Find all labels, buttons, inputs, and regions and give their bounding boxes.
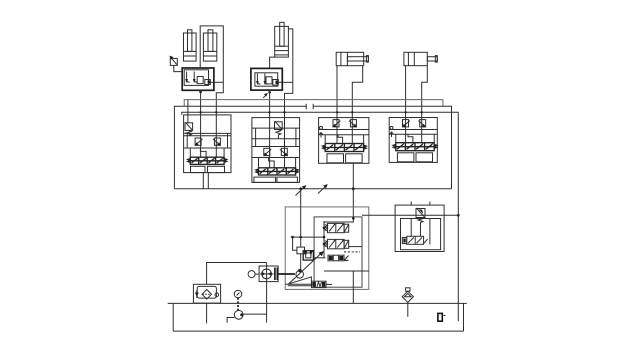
pilot line PB1 center [200,90,202,157]
section S4 check valve b [418,120,425,128]
section S2 relief stem [277,135,279,139]
gear pump GP cross [260,273,274,275]
junction dot SV2 [323,243,326,246]
filter bypass check valve [195,290,199,298]
cylinder CY3 body [275,26,289,57]
pilot pump suction stub [227,318,234,323]
gear pump GP frame [259,266,278,282]
pipe block top gallery to right block [362,214,458,216]
pipe PB2 right port to riser [278,81,292,83]
pilot relief valve PR1 body [170,58,177,65]
oil level gauge [438,313,442,321]
pipe CY4 cap end down to manifold [336,66,338,144]
supply gallery line C [182,112,459,115]
section S2 relief valve body [275,122,283,130]
pipe drain gauge to gear pump [255,273,259,275]
flow arrow on line D left [296,185,307,195]
pipe gear pump suction into tank [266,263,268,323]
pilot reducing valve PB1-b arrowhead [193,79,196,83]
pipe CY5 rod end down to manifold [422,66,428,143]
valve section S3 frame [319,118,369,164]
relief block channel a [410,219,412,237]
junction dot servo gallery left [291,236,294,239]
pilot pump PP circle [234,310,243,319]
section S1 inner side channels [187,133,227,148]
pipe filter to gear pump [207,263,267,285]
tank return line from gallery C [457,112,459,321]
drain line inside block [324,270,369,272]
section S2 foot chamber a [254,177,276,182]
air breather cap [406,288,410,291]
section S1 side channels [190,148,224,157]
main supply/return line D (manifold bottom) [174,188,451,190]
section S3 spool bridge channel [338,135,343,144]
section S1 spool bridge channel [200,148,206,157]
section S1 check gallery lines [184,136,231,148]
pipe filter leg into tank [206,303,208,323]
manifold top break tick right [312,104,314,110]
section S4 check gallery line [389,129,437,131]
gear pump GP circle [262,269,272,279]
servo valve box B inner [306,253,311,258]
cylinder CY4 rod end cap [366,56,368,63]
junction dot SV1 [323,227,326,230]
compensator valve CV [312,281,333,287]
junction dot PB2 bottom [268,91,271,94]
section S4 gallery line mid [389,133,437,135]
pressure gauge G1 [234,290,242,298]
high pressure relief block frame [395,205,444,251]
pilot pump PP outlet dot [240,313,243,316]
junction dots on gallery C [200,111,423,113]
section S2 foot chamber b [277,177,298,182]
air breather stem into tank [407,302,409,317]
riser feeding solenoid valves [323,221,325,258]
cylinder CY5 body [404,52,427,65]
section S2 relief valve spring [276,130,281,135]
swash servo arrow (variable pump) [289,251,324,284]
cylinder CY5 rod [427,57,437,61]
section S2 spool bridge channel [269,158,275,168]
pilot supply line A across top of manifold [184,100,443,107]
pilot valve block PB1 inner envelope [184,70,208,86]
junction dot on line D at pump pipe [299,187,302,190]
pipe pilot pump discharge [243,313,267,315]
tank bottom [173,330,463,332]
main pump MP outlet dot [298,269,301,272]
regulator inner frame [314,217,362,287]
section S2 check valve a [263,148,271,156]
tank right wall [463,303,465,331]
section S4 anti-cavitation check [390,126,393,129]
pilot reducing valve PB1-a arrowhead [185,79,188,83]
main relief valve RV body [416,209,425,218]
pilot valve PB1 end box plug [208,81,211,84]
pilot reducing valve PB1-b [194,72,197,83]
section S4 foot chamber a [397,153,414,162]
pilot reducing valve PB2-b arrowhead [264,81,267,85]
riser to section S1 relief [187,100,189,123]
section S4 spool bridge channel [408,134,413,143]
pipe to servo head [293,237,297,250]
pipe CY3 rod port down to PB2 [270,57,275,68]
section S4 check valve a [402,120,410,128]
pilot valve PB2 spool box [266,77,272,84]
section S2 gallery line upper [252,127,300,129]
pipe CY4 rod end down to manifold [352,66,362,144]
relief block inner envelope [401,219,441,250]
pilot dash line under SV2 [344,251,360,253]
section S1 foot chamber b [208,166,225,172]
unload spool valve UV [402,236,427,244]
pipe regulator to line D [352,189,354,219]
section S4 main spool band [393,143,436,151]
pipe solenoid feed from regulator top [324,218,353,222]
servo valve box B [303,251,313,260]
pipe section S3 tank leg [352,163,354,189]
valve section S4 frame [389,118,437,163]
pilot valve PB1 spool box [197,77,203,84]
drain arrow under PB2 [263,94,266,98]
pilot reducing valve PB2-a [257,74,260,85]
valve section S1 frame [184,115,231,173]
cylinder CY3 rod [280,22,284,46]
hydraulic tank outline [168,302,467,304]
manifold top break tick left [305,104,307,110]
coupling bars [275,268,278,281]
return filter block frame [193,284,220,303]
section S3 check valve b [349,120,357,128]
valve section S2 frame [252,118,300,183]
relief block port stub b [429,202,431,206]
pilot relief valve PR1 arrowhead [169,56,173,60]
pipe CY3 head port to riser [285,29,293,168]
pipe section S1 tank leg [202,173,204,189]
junction dot regulator top [352,217,355,220]
cylinder CY5 rod end cap [435,56,437,63]
drive shaft [278,273,295,275]
section S2 check valve b [280,148,288,156]
solenoid valve SV1 [325,223,349,232]
cylinder CY4 body [336,52,364,65]
air breather filter diamond [402,291,413,302]
junction dot servo gallery mid [299,236,302,239]
section S3 check gallery line [319,129,369,131]
junction dot PB1 bottom [199,91,202,94]
cylinder CY2 body [203,33,216,61]
filter bypass ball [215,293,219,297]
pilot reducing valve PB2-a arrowhead [256,81,259,85]
pilot relief valve PR1 arrow [171,57,177,64]
pipe SV2 to inner frame [349,246,362,248]
main pump MP circle [296,271,304,279]
section S2 relief valve arrow [275,121,282,129]
pilot reducing valve PB1-a [187,72,190,83]
flow arrow on line D right [318,184,328,193]
section S1 foot chamber a [191,166,206,172]
section S3 side channels [325,135,363,144]
section S2 side channels [259,158,296,168]
section S3 anti-cavitation check [320,126,323,129]
shuttle row under solenoid valves [328,255,349,261]
pipe servo to pump [300,254,302,271]
section S3 main spool band [323,144,366,152]
oil level gauge tick [444,315,446,317]
return filter element (diamond) [202,290,212,300]
pipe PV feed [300,189,302,247]
relief block port stub a [410,202,412,206]
section S2 main spool band [256,168,298,175]
tank left wall [172,303,174,331]
section S4 foot chamber b [416,153,433,162]
section S1 relief valve body [185,123,193,131]
section S3 gallery line mid [319,134,369,136]
return filter inner envelope [197,286,216,298]
pipe PB1 right port to riser [210,81,223,83]
servo feed gallery [291,236,324,238]
pilot valve block PB2 inner envelope [255,73,278,86]
pilot valve block PB2 frame [251,68,282,90]
section S2 gallery line lower [252,138,300,140]
gauge damper line [237,298,239,311]
pump case bottom line [285,283,288,285]
pipe RV to spool [420,223,422,237]
section S4 side channels [396,134,434,143]
cylinder CY1 body [184,33,197,61]
section S3 foot chamber b [346,154,363,163]
section S1 main spool band [188,157,227,164]
section S2 check gallery lines [252,147,300,158]
cylinder CY2 rod [208,30,213,52]
pipe PR1 to PB1 [174,65,182,71]
section S1 check valve a [195,138,203,146]
section S1 gallery line [184,132,231,134]
pilot valve PB2 end box [273,80,279,86]
section S3 foot chamber a [327,154,344,163]
relief block channel b [429,219,431,245]
section S1 relief valve arrow [185,122,192,130]
air breather internal [404,294,411,297]
pipe block drain to tank [352,271,354,303]
pilot valve PB2 end box plug [276,81,279,85]
drain arrowhead under PB2 [264,93,268,97]
main control valve manifold frame [174,106,451,189]
drain gauge circle [248,271,255,278]
section S2 inner side channels [256,128,296,146]
solenoid valve SV2 [325,239,349,248]
main relief valve RV spring [418,218,423,223]
pipe from cylinders CY1/CY2 header down to pilot block PB1 [200,26,223,157]
pilot line PB2 center [269,90,271,168]
pilot valve block PB1 frame [182,68,214,90]
junction dot on line D at S3 leg [352,187,355,190]
pilot reducing valve PB2-b [265,74,268,85]
main relief valve RV arrow [416,208,424,217]
return filter flow dashes [203,293,212,295]
pilot valve PB1 end box [205,80,211,85]
pump group frame (sub-plate) [285,207,369,290]
cylinder CY1 rod [188,30,192,52]
section S1 check valve b [213,138,221,146]
cylinder CY4 rod [347,57,368,61]
section S3 check valve a [333,120,341,128]
servo valve B curls [304,250,313,255]
pipe CY5 cap end down to manifold [405,66,407,143]
swash wedge [288,277,312,284]
servo head box A [297,247,305,254]
section S1 relief valve spring [186,130,191,135]
junction dot servo gallery right [323,236,326,239]
pipe servo B to solenoid leg [313,257,325,259]
